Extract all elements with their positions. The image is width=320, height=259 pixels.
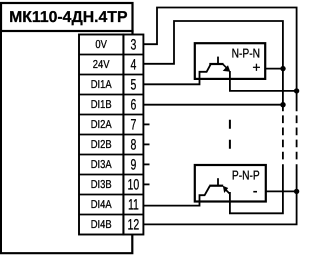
svg-text:5: 5: [130, 77, 136, 94]
terminal block label column: [79, 35, 123, 235]
svg-text:DI4A: DI4A: [91, 199, 112, 211]
transistor Q2 collector line: [217, 178, 219, 186]
junction dot DI1B/inner bus: [280, 102, 285, 107]
svg-text:11: 11: [128, 197, 139, 214]
dashed continuation line between sensor groups: [229, 120, 231, 149]
transistor Q1 emitter with npn arrow: [223, 64, 228, 69]
svg-text:4: 4: [130, 57, 136, 74]
transistor Q2 pnp base bar: [209, 185, 223, 187]
svg-text:12: 12: [128, 217, 140, 234]
wire stub DI2B terminal 8: [143, 143, 149, 145]
svg-text:3: 3: [130, 37, 136, 54]
junction dot minus/outer bus: [294, 189, 299, 194]
wire stub DI3B terminal 10: [143, 183, 149, 185]
transistor Q1 collector line: [217, 57, 219, 64]
svg-text:МК110-4ДН.4ТР: МК110-4ДН.4ТР: [9, 9, 127, 26]
svg-text:24V: 24V: [93, 59, 110, 71]
svg-text:DI1B: DI1B: [91, 99, 112, 111]
svg-text:0V: 0V: [95, 39, 107, 51]
terminal block number column: [123, 35, 143, 235]
label - polarity: [253, 191, 257, 193]
wire N-P-N plus to inner bus: [265, 68, 283, 70]
wire stub DI3A terminal 9: [143, 163, 149, 165]
wire inner bus dashed middle section: [282, 115, 284, 159]
wire DI4A terminal 11 to P-N-P transistor: [143, 186, 209, 206]
svg-text:6: 6: [130, 97, 136, 114]
sensor box P-N-P: [195, 165, 266, 202]
wire outer bus lower section to DI4B terminal 12: [143, 164, 296, 224]
device outline МК110 body (left and bottom edges): [1, 30, 132, 253]
wire N-P-N emitter to outer bus: [230, 71, 297, 91]
wire stub DI2A terminal 7: [143, 123, 149, 125]
wire P-N-P minus to outer bus: [266, 190, 297, 192]
terminal block row dividers: [79, 55, 143, 215]
transistor Q1 npn base bar: [209, 63, 223, 65]
wire outer bus dashed middle section: [296, 115, 298, 159]
svg-text:DI4B: DI4B: [91, 219, 112, 231]
title text МК110-4ДН.4ТР: [9, 9, 127, 26]
wire 0V terminal 3 to outer bus top: [143, 8, 296, 112]
svg-text:DI3B: DI3B: [91, 179, 112, 191]
pin numbers 3..12: [128, 37, 140, 234]
svg-text:DI1A: DI1A: [91, 79, 112, 91]
device outline right leg between title box and terminal block: [131, 30, 133, 35]
svg-text:DI3A: DI3A: [91, 159, 112, 171]
junction dot plus/inner bus: [280, 66, 285, 71]
device title box: [1, 3, 133, 31]
wire DI1A terminal 5 to N-P-N transistor: [143, 64, 210, 84]
transistor Q2 emitter with pnp arrow: [226, 190, 230, 194]
svg-text:+: +: [252, 59, 260, 75]
junction dot emitter/outer bus: [294, 88, 299, 93]
svg-text:DI2A: DI2A: [91, 119, 112, 131]
svg-text:10: 10: [128, 177, 140, 194]
svg-text:P-N-P: P-N-P: [232, 167, 260, 182]
svg-text:9: 9: [130, 157, 136, 174]
label P-N-P: [232, 167, 260, 182]
wire inner bus lower section to P-N-P emitter: [230, 164, 283, 213]
svg-text:DI2B: DI2B: [91, 139, 112, 151]
wire DI1B terminal 6 to inner bus: [143, 104, 283, 106]
svg-text:7: 7: [130, 117, 136, 134]
wire 24V terminal 4 to inner bus top: [143, 21, 283, 111]
label + polarity: [252, 59, 260, 75]
label N-P-N: [232, 45, 260, 60]
sensor box N-P-N: [195, 43, 265, 79]
terminal labels 0V..DI4B: [91, 39, 112, 231]
svg-text:8: 8: [130, 137, 136, 154]
wire P-N-P emitter leg down: [229, 192, 231, 202]
